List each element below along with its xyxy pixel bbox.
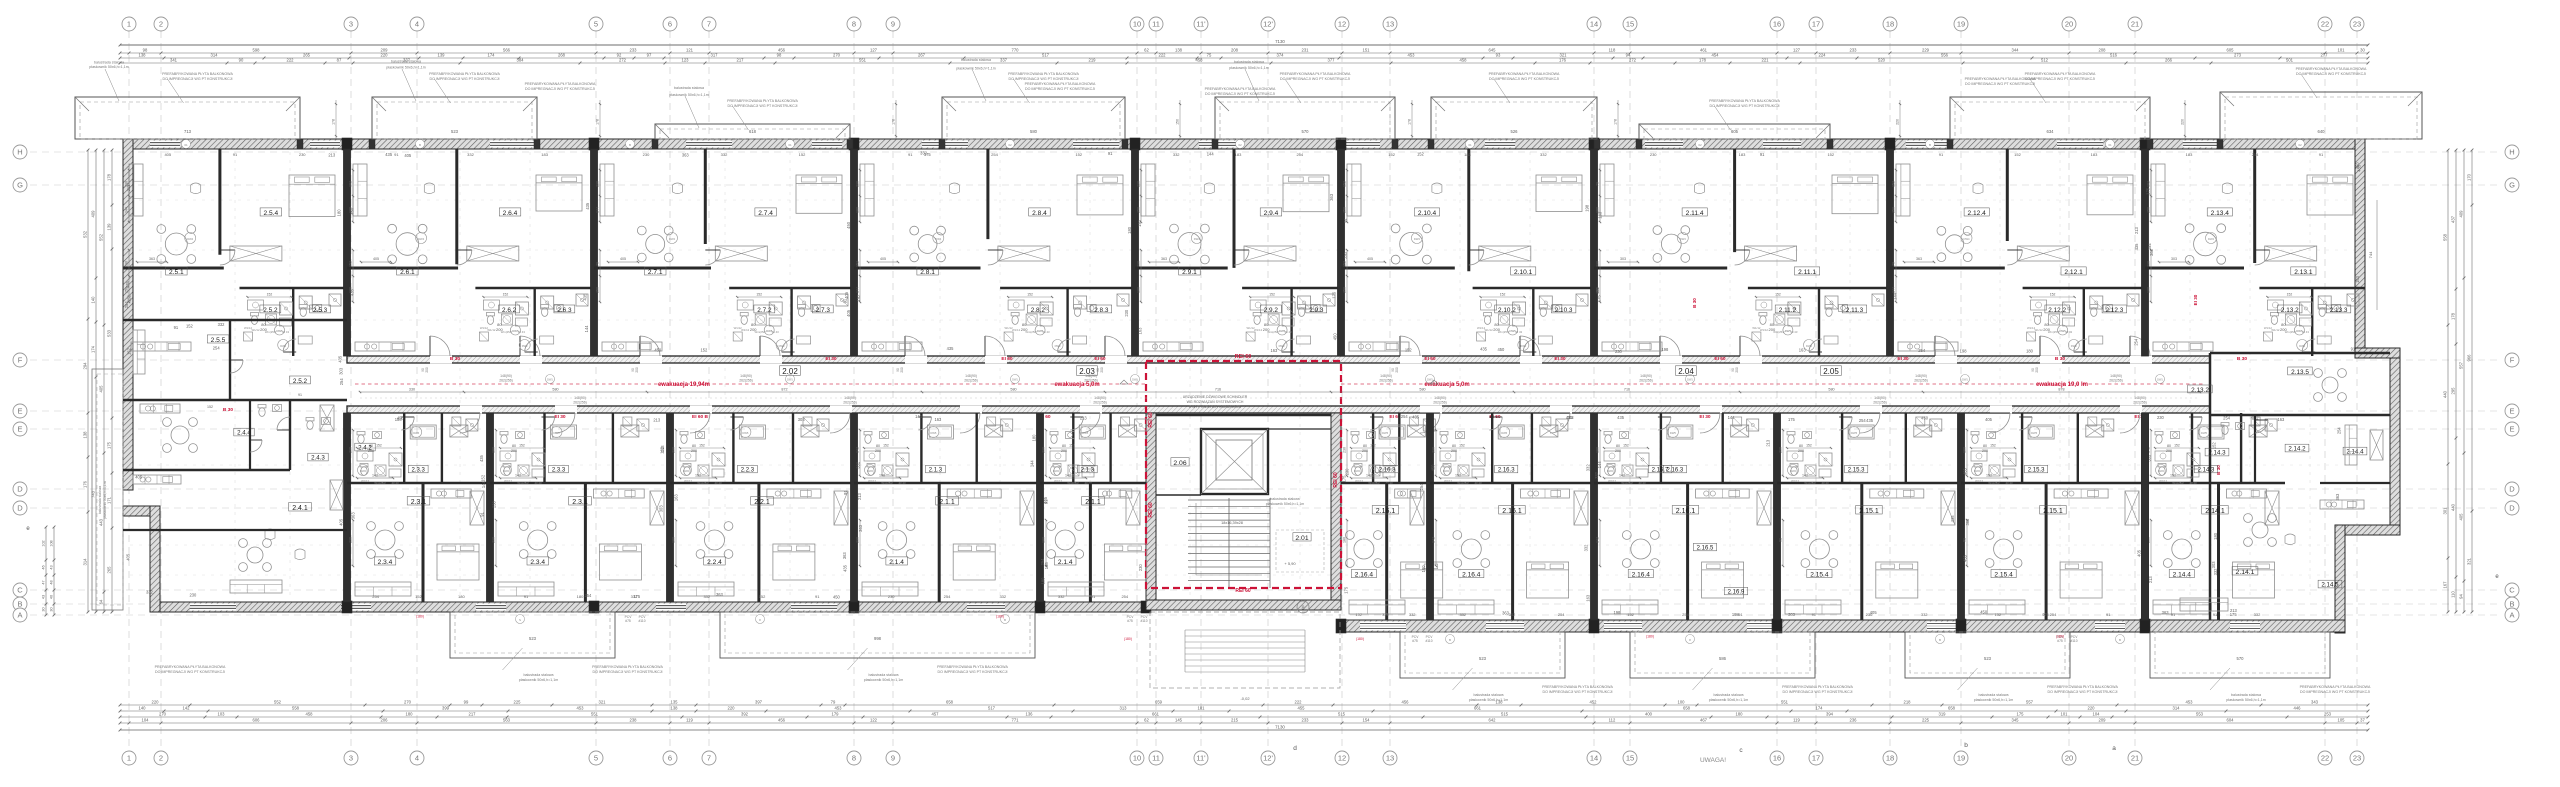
svg-text:570: 570	[2237, 656, 2245, 661]
svg-text:EI 30: EI 30	[1699, 414, 1711, 420]
svg-text:80: 80	[1983, 444, 1987, 448]
svg-text:213: 213	[2230, 608, 2238, 613]
svg-text:180: 180	[2213, 532, 2218, 540]
svg-text:2.12.1: 2.12.1	[2064, 269, 2083, 276]
svg-text:2.5.2: 2.5.2	[263, 307, 278, 314]
svg-text:142: 142	[1596, 537, 1600, 543]
svg-text:DW4: DW4	[1680, 237, 1686, 241]
svg-text:2.3.4: 2.3.4	[530, 559, 545, 566]
svg-text:405: 405	[846, 309, 851, 317]
svg-text:2.8.4: 2.8.4	[1032, 210, 1047, 217]
svg-text:435: 435	[1480, 346, 1488, 351]
svg-text:43 43: 43 43	[392, 481, 399, 485]
svg-text:91: 91	[2213, 612, 2218, 617]
svg-text:Wm(25/2: Wm(25/2	[1067, 481, 1079, 485]
svg-text:91: 91	[1091, 594, 1096, 599]
svg-text:E: E	[2509, 407, 2514, 416]
svg-text:152: 152	[1994, 612, 2001, 617]
svg-text:12': 12'	[1263, 20, 1273, 29]
svg-text:363: 363	[350, 512, 355, 520]
svg-text:178: 178	[1408, 119, 1412, 125]
svg-text:152: 152	[1388, 152, 1395, 157]
svg-text:405: 405	[164, 152, 171, 157]
svg-text:363: 363	[2335, 493, 2340, 501]
entry porch	[1150, 612, 1340, 688]
svg-text:4: 4	[415, 20, 419, 29]
svg-text:2.8.2: 2.8.2	[1031, 307, 1046, 314]
lower unit 2.1 [854-1040]	[851, 413, 858, 602]
svg-text:580: 580	[1828, 388, 1834, 392]
svg-text:PREFABRYKOWANA PŁYTA BALKONOWA: PREFABRYKOWANA PŁYTA BALKONOWA	[2047, 685, 2118, 689]
svg-text:744: 744	[2368, 251, 2373, 258]
svg-text:2.11.1: 2.11.1	[1798, 269, 1816, 276]
windows top wall	[150, 141, 180, 148]
svg-text:104: 104	[142, 718, 150, 723]
svg-text:453: 453	[2186, 700, 2194, 705]
svg-text:303: 303	[2211, 561, 2216, 569]
svg-text:230: 230	[349, 447, 353, 453]
svg-text:148(90): 148(90)	[740, 374, 752, 378]
svg-text:2.7.1: 2.7.1	[648, 269, 663, 276]
svg-text:#110: #110	[1140, 619, 1147, 623]
lower unit 2.3 [490-670]	[487, 413, 494, 602]
corridor lower chain	[360, 397, 2200, 399]
svg-text:230: 230	[1343, 251, 1348, 259]
svg-text:43 43: 43 43	[2190, 481, 2197, 485]
svg-text:332: 332	[1509, 612, 1516, 617]
svg-text:230: 230	[299, 152, 306, 157]
svg-text:01: 01	[788, 143, 792, 147]
svg-text:2.13.5: 2.13.5	[2291, 369, 2309, 376]
svg-text:152: 152	[2014, 152, 2021, 157]
svg-text:127: 127	[870, 48, 878, 53]
svg-text:15: 15	[1626, 754, 1634, 763]
svg-text:17: 17	[1812, 754, 1820, 763]
svg-text:43 43: 43 43	[2006, 481, 2013, 485]
svg-text:458: 458	[1460, 58, 1468, 63]
svg-text:DW1: DW1	[1687, 378, 1693, 382]
svg-text:DW2: DW2	[1279, 344, 1285, 348]
svg-text:167: 167	[2443, 581, 2448, 589]
svg-text:4: 4	[415, 754, 419, 763]
svg-text:254: 254	[2337, 427, 2342, 435]
svg-text:2.11.4: 2.11.4	[1686, 210, 1704, 217]
svg-text:6: 6	[668, 20, 672, 29]
svg-text:2.12.4: 2.12.4	[1968, 210, 1987, 217]
svg-text:REI 60: REI 60	[1148, 412, 1154, 428]
svg-text:2.1.3: 2.1.3	[1081, 468, 1095, 474]
svg-text:płaskownik 50x6,h=1,1m: płaskownik 50x6,h=1,1m	[1469, 698, 1508, 702]
svg-text:213: 213	[2148, 576, 2153, 584]
svg-text:2.3.4: 2.3.4	[378, 559, 393, 566]
svg-text:DW2: DW2	[867, 469, 873, 473]
svg-text:200: 200	[2166, 449, 2172, 453]
svg-text:balustrada stalowa: balustrada stalowa	[391, 60, 421, 64]
svg-text:453: 453	[577, 706, 585, 711]
svg-text:230: 230	[1042, 447, 1046, 453]
svg-text:B 30: B 30	[2216, 465, 2221, 475]
svg-text:DW4: DW4	[187, 237, 193, 241]
svg-text:254: 254	[2050, 612, 2057, 617]
svg-text:-0,02: -0,02	[1240, 696, 1250, 701]
svg-text:770: 770	[1012, 48, 1020, 53]
upper unit 2.8 [854-1135]	[851, 149, 858, 356]
balcony x2220	[2220, 92, 2422, 139]
svg-text:2.10.2: 2.10.2	[1498, 307, 1516, 314]
svg-text:91: 91	[815, 594, 820, 599]
upper unit 2.7 [594-854]	[591, 149, 598, 356]
svg-text:467: 467	[1700, 718, 1708, 723]
svg-text:152: 152	[415, 594, 422, 599]
svg-text:W1/12: W1/12	[684, 479, 693, 483]
svg-text:400: 400	[1645, 712, 1653, 717]
svg-text:230: 230	[492, 500, 497, 508]
svg-text:DO IMPREGNACJI WG PT KONSTRUKC: DO IMPREGNACJI WG PT KONSTRUKCJI	[1709, 104, 1779, 108]
svg-text:93: 93	[1496, 53, 1501, 58]
svg-text:345: 345	[2012, 718, 2020, 723]
svg-text:43 43: 43 43	[1822, 481, 1829, 485]
svg-text:91: 91	[908, 152, 913, 157]
svg-text:152: 152	[1500, 293, 1506, 297]
svg-text:2.9.2: 2.9.2	[1264, 307, 1279, 314]
svg-text:200: 200	[1021, 327, 1028, 332]
svg-text:PREFABRYKOWANA PŁYTA BALKONOWA: PREFABRYKOWANA PŁYTA BALKONOWA	[162, 72, 233, 76]
svg-text:180: 180	[1042, 537, 1046, 543]
svg-text:152: 152	[700, 348, 708, 353]
svg-text:2.3.3: 2.3.3	[412, 468, 426, 474]
svg-text:180: 180	[1127, 226, 1132, 234]
svg-text:363: 363	[1916, 257, 1922, 261]
svg-text:250: 250	[1137, 207, 1141, 213]
svg-text:553: 553	[2196, 712, 2204, 717]
svg-text:W1/12: W1/12	[1760, 328, 1769, 332]
svg-text:533: 533	[107, 329, 112, 337]
svg-text:10: 10	[1133, 754, 1141, 763]
svg-text:DW2: DW2	[2299, 344, 2305, 348]
svg-text:618: 618	[749, 129, 757, 134]
svg-text:balustrada stalowa: balustrada stalowa	[2231, 693, 2261, 697]
svg-text:144: 144	[1597, 461, 1602, 469]
corridor doors	[430, 356, 452, 364]
svg-text:DW1: DW1	[1962, 378, 1968, 382]
svg-text:551: 551	[1781, 700, 1789, 705]
svg-text:254: 254	[991, 152, 998, 157]
svg-text:122: 122	[870, 718, 878, 723]
svg-text:balustrada stalowa: balustrada stalowa	[1474, 693, 1504, 697]
svg-text:515: 515	[1501, 712, 1509, 717]
svg-text:405: 405	[2137, 549, 2142, 557]
svg-text:D: D	[2509, 504, 2515, 513]
svg-text:180: 180	[1596, 207, 1600, 213]
corridor bottom wall	[347, 406, 2210, 413]
svg-text:2.8.1: 2.8.1	[920, 269, 935, 276]
wall marker circles	[182, 140, 191, 149]
svg-text:152: 152	[1986, 474, 1992, 478]
svg-text:DO IMPREGNACJI WG PT KONSTRUKC: DO IMPREGNACJI WG PT KONSTRUKCJI	[727, 104, 797, 108]
svg-text:EI 60: EI 60	[1424, 356, 1436, 362]
svg-text:148(90): 148(90)	[2110, 374, 2122, 378]
svg-text:230: 230	[888, 594, 895, 599]
svg-text:515: 515	[1338, 712, 1346, 717]
svg-text:W1/12: W1/12	[1752, 326, 1761, 330]
svg-text:200: 200	[1769, 327, 1776, 332]
svg-text:2.15.4: 2.15.4	[1810, 571, 1829, 578]
svg-text:180: 180	[458, 594, 465, 599]
svg-text:80: 80	[1616, 444, 1620, 448]
svg-text:163: 163	[1799, 348, 1807, 353]
svg-text:405: 405	[1985, 417, 1993, 422]
svg-text:606: 606	[253, 718, 261, 723]
svg-text:152: 152	[1775, 293, 1781, 297]
svg-text:DW5: DW5	[1279, 329, 1286, 333]
svg-text:384: 384	[517, 58, 525, 63]
svg-text:230: 230	[1866, 612, 1873, 617]
svg-text:80: 80	[1363, 444, 1367, 448]
svg-text:91: 91	[1963, 538, 1967, 542]
left end furniture	[171, 426, 189, 444]
svg-text:178: 178	[107, 173, 112, 181]
svg-text:(180): (180)	[2056, 635, 2064, 639]
svg-text:152: 152	[207, 405, 213, 409]
svg-text:2.16.3: 2.16.3	[1498, 468, 1515, 474]
svg-text:(180): (180)	[1356, 637, 1364, 641]
svg-text:B 30: B 30	[2237, 356, 2247, 362]
svg-text:180: 180	[2147, 287, 2151, 293]
svg-text:435: 435	[842, 564, 847, 572]
svg-text:DW4: DW4	[418, 237, 424, 241]
svg-text:b: b	[1964, 742, 1968, 749]
svg-text:DO IMPREGNACJI WG PT KONSTRUKC: DO IMPREGNACJI WG PT KONSTRUKCJI	[1782, 690, 1852, 694]
svg-text:551: 551	[859, 58, 867, 63]
svg-text:523: 523	[451, 129, 459, 134]
svg-text:220: 220	[2088, 706, 2096, 711]
svg-text:200: 200	[2035, 367, 2039, 373]
corridor level mark	[1120, 380, 1128, 384]
svg-text:435: 435	[1617, 415, 1625, 420]
svg-text:213: 213	[660, 445, 665, 453]
svg-text:456: 456	[778, 718, 786, 723]
svg-text:332: 332	[631, 594, 638, 599]
svg-text:2.5.1: 2.5.1	[169, 269, 184, 276]
svg-text:152: 152	[1355, 612, 1362, 617]
svg-text:DW5: DW5	[742, 431, 748, 435]
svg-text:W1/12: W1/12	[1054, 479, 1063, 483]
svg-text:102: 102	[42, 540, 46, 546]
svg-text:2: 2	[159, 20, 163, 29]
svg-text:392: 392	[741, 712, 749, 717]
svg-text:płaskownik 50x6,h=1,1m: płaskownik 50x6,h=1,1m	[519, 678, 558, 682]
svg-text:563: 563	[503, 718, 511, 723]
svg-text:2.16.9: 2.16.9	[1728, 590, 1745, 596]
svg-text:152: 152	[186, 324, 194, 329]
svg-text:501: 501	[2286, 58, 2294, 63]
svg-text:62: 62	[1144, 48, 1149, 53]
svg-text:DW2: DW2	[2158, 469, 2164, 473]
svg-text:DW2: DW2	[1520, 344, 1526, 348]
svg-text:DW5: DW5	[1082, 431, 1088, 435]
svg-text:B 30: B 30	[2055, 356, 2065, 362]
svg-text:DW2: DW2	[683, 469, 689, 473]
svg-text:450: 450	[654, 347, 662, 352]
svg-text:11': 11'	[1196, 20, 1206, 29]
svg-text:B 30: B 30	[450, 356, 460, 362]
svg-text:301: 301	[2443, 507, 2448, 515]
svg-text:377: 377	[1328, 58, 1336, 63]
svg-text:262(256): 262(256)	[1639, 379, 1653, 383]
svg-text:płaskownik 50x6,h=1,1m: płaskownik 50x6,h=1,1m	[956, 67, 995, 71]
svg-text:262(256): 262(256)	[1914, 379, 1928, 383]
svg-text:332: 332	[1540, 152, 1547, 157]
svg-text:229: 229	[1922, 48, 1930, 53]
svg-text:DO IMPREGNACJI WG PT KONSTRUKC: DO IMPREGNACJI WG PT KONSTRUKCJI	[1542, 690, 1612, 694]
lower unit 2.2 [670-854]	[667, 413, 674, 602]
svg-text:DO IMPREGNACJI WG PT KONSTRUKC: DO IMPREGNACJI WG PT KONSTRUKCJI	[1008, 77, 1078, 81]
svg-text:18: 18	[1886, 754, 1894, 763]
svg-text:11': 11'	[1196, 754, 1206, 763]
svg-text:2.16.1: 2.16.1	[1502, 508, 1522, 515]
svg-text:716: 716	[1624, 388, 1630, 392]
svg-text:230: 230	[1779, 447, 1783, 453]
svg-text:(180): (180)	[1124, 637, 1132, 641]
svg-text:W1/12: W1/12	[734, 326, 743, 330]
bottom wall piers	[342, 601, 352, 613]
svg-text:142: 142	[183, 706, 191, 711]
corridor labels	[780, 366, 801, 376]
svg-text:91: 91	[174, 325, 179, 330]
svg-text:DW2: DW2	[1053, 469, 1059, 473]
svg-text:661: 661	[1474, 706, 1482, 711]
svg-text:W1/12: W1/12	[1355, 479, 1364, 483]
svg-text:152: 152	[2174, 444, 2180, 448]
svg-text:152: 152	[1370, 444, 1376, 448]
svg-text:605: 605	[2227, 48, 2235, 53]
svg-text:272: 272	[619, 58, 627, 63]
svg-text:455: 455	[1298, 706, 1306, 711]
svg-text:Z WYTYCZNYMI PRODUCENTA: Z WYTYCZNYMI PRODUCENTA	[1189, 405, 1242, 409]
svg-text:332: 332	[999, 594, 1006, 599]
svg-text:152: 152	[1405, 347, 1413, 352]
svg-text:14: 14	[1590, 754, 1598, 763]
svg-text:D: D	[17, 504, 23, 513]
svg-text:43 43: 43 43	[1639, 481, 1646, 485]
evacuation red dashed path	[355, 383, 1146, 385]
svg-text:208: 208	[1231, 48, 1239, 53]
svg-text:2.1.4: 2.1.4	[1058, 559, 1073, 566]
svg-text:płaskownik 50x6,h=1,1m: płaskownik 50x6,h=1,1m	[1709, 698, 1748, 702]
svg-text:Wm(25/2: Wm(25/2	[517, 481, 529, 485]
svg-text:254: 254	[2134, 338, 2139, 346]
svg-text:balustrada stalowa: balustrada stalowa	[524, 673, 554, 677]
svg-text:558: 558	[2443, 233, 2448, 241]
svg-text:230: 230	[1124, 309, 1129, 317]
svg-text:80: 80	[1452, 444, 1456, 448]
svg-text:91: 91	[298, 393, 302, 397]
svg-text:D: D	[2509, 485, 2515, 494]
svg-text:152: 152	[1459, 444, 1465, 448]
top dimension chains	[120, 44, 2368, 46]
svg-text:262(256): 262(256)	[1093, 401, 1107, 405]
svg-text:254: 254	[339, 378, 344, 386]
svg-text:580: 580	[1419, 388, 1425, 392]
svg-text:148(90): 148(90)	[1380, 374, 1392, 378]
svg-text:230: 230	[1343, 447, 1347, 453]
svg-text:580: 580	[552, 388, 558, 392]
svg-text:183: 183	[2091, 152, 2098, 157]
svg-text:138: 138	[83, 431, 88, 439]
svg-text:79: 79	[596, 262, 600, 266]
svg-text:230: 230	[125, 181, 129, 187]
svg-text:435: 435	[1950, 515, 1955, 523]
right dimension chains	[2447, 150, 2449, 612]
svg-text:2.11.2: 2.11.2	[1779, 307, 1797, 314]
svg-text:Wm(25/2: Wm(25/2	[374, 481, 386, 485]
svg-text:566: 566	[503, 48, 511, 53]
svg-text:142: 142	[1619, 474, 1625, 478]
svg-text:142: 142	[1366, 474, 1372, 478]
svg-text:183: 183	[1739, 152, 1746, 157]
upper unit 2.9 [1135-1341]	[1132, 149, 1139, 356]
core walls	[1146, 413, 1156, 610]
upper unit 2.13 [2145-2365]	[2142, 149, 2149, 356]
svg-text:G: G	[17, 181, 23, 190]
svg-text:121: 121	[686, 48, 694, 53]
svg-text:102: 102	[349, 181, 353, 187]
svg-text:332: 332	[1409, 612, 1416, 617]
svg-text:DW1: DW1	[547, 378, 553, 382]
svg-text:174: 174	[1816, 706, 1824, 711]
svg-text:DW5: DW5	[2201, 431, 2207, 435]
svg-text:198: 198	[879, 474, 885, 478]
svg-text:PREFABRYKOWANA PŁYTA BALKONOWA: PREFABRYKOWANA PŁYTA BALKONOWA	[155, 665, 226, 669]
svg-text:200: 200	[1061, 449, 1067, 453]
bottom balconies	[450, 612, 615, 658]
svg-text:URZĄDZENIE DŹWIGOWE SCHINDLER: URZĄDZENIE DŹWIGOWE SCHINDLER	[1183, 394, 1248, 399]
svg-text:2.6.2: 2.6.2	[502, 307, 517, 314]
svg-text:43 43: 43 43	[715, 481, 722, 485]
svg-text:2.14.1: 2.14.1	[2205, 508, 2225, 515]
svg-text:570: 570	[1302, 129, 1310, 134]
svg-text:152: 152	[267, 293, 273, 297]
svg-text:#110: #110	[1425, 639, 1432, 643]
svg-text:PREFABRYKOWANA PŁYTA BALKONOWA: PREFABRYKOWANA PŁYTA BALKONOWA	[2300, 685, 2371, 689]
svg-text:452: 452	[1590, 700, 1598, 705]
svg-text:230: 230	[1615, 349, 1623, 354]
svg-text:G: G	[2509, 181, 2515, 190]
svg-text:DW2: DW2	[1607, 469, 1613, 473]
svg-text:ewakuacja 5,0m: ewakuacja 5,0m	[1054, 382, 1099, 388]
svg-text:PREFABRYKOWANA PŁYTA BALKONOWA: PREFABRYKOWANA PŁYTA BALKONOWA	[1280, 72, 1351, 76]
svg-text:250: 250	[125, 287, 129, 293]
svg-text:220: 220	[381, 53, 389, 58]
svg-text:397: 397	[755, 700, 763, 705]
svg-text:W1/12: W1/12	[487, 328, 496, 332]
svg-text:W1/12: W1/12	[361, 479, 370, 483]
outer wall left	[123, 139, 133, 490]
svg-text:145: 145	[1175, 718, 1183, 723]
svg-text:303: 303	[1788, 612, 1796, 617]
svg-text:163: 163	[1270, 348, 1278, 353]
svg-text:W1/12: W1/12	[1005, 326, 1014, 330]
svg-text:363: 363	[716, 592, 724, 597]
svg-text:152: 152	[376, 444, 382, 448]
svg-text:180: 180	[1343, 537, 1347, 543]
svg-text:W1/12: W1/12	[2035, 328, 2044, 332]
svg-text:DO IMPREGNACJI WG PT KONSTRUKC: DO IMPREGNACJI WG PT KONSTRUKCJI	[1205, 92, 1275, 96]
svg-text:02: 02	[1238, 143, 1242, 147]
svg-text:175: 175	[924, 152, 932, 157]
svg-text:W1/12: W1/12	[2264, 326, 2273, 330]
svg-text:218: 218	[1904, 700, 1912, 705]
